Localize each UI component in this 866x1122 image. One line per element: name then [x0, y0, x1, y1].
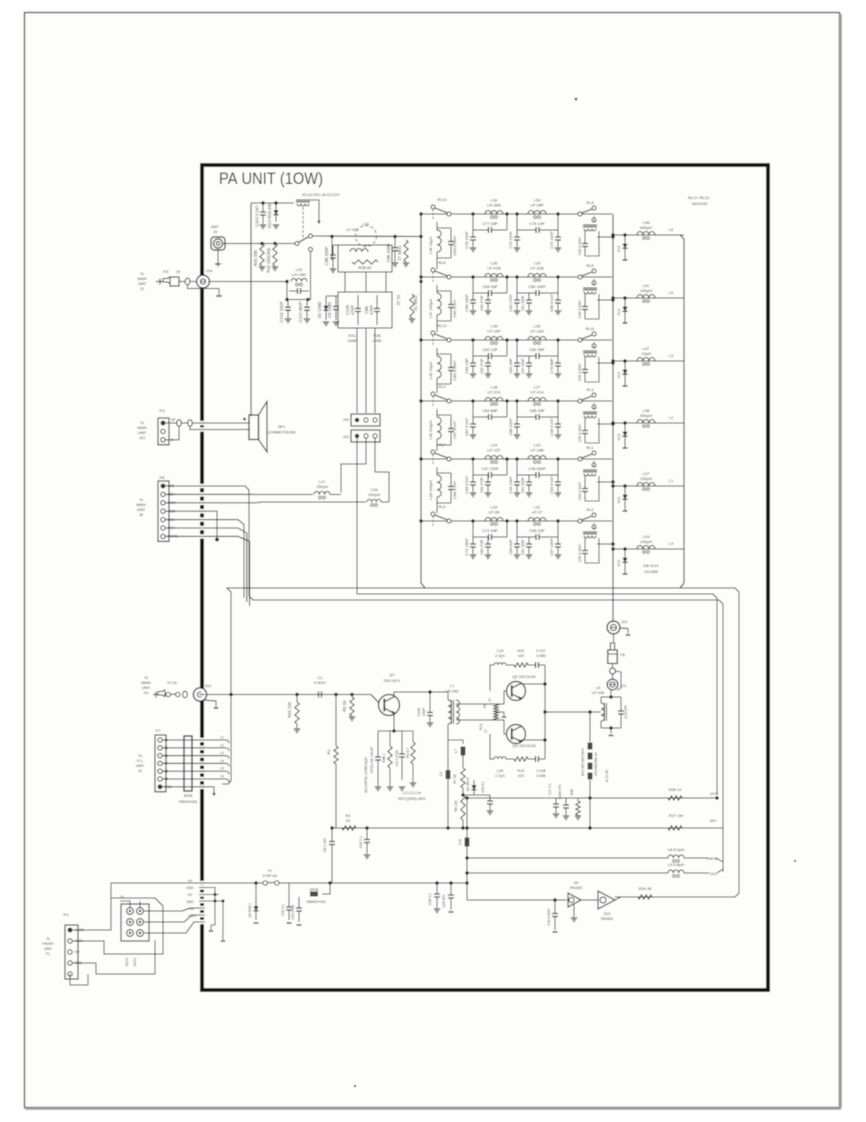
wire speaker return: [190, 426, 250, 429]
svg-text:J13: J13: [139, 436, 145, 440]
svg-text:R45 33K: R45 33K: [253, 250, 258, 267]
svg-text:RL11~RL12: RL11~RL12: [688, 195, 710, 200]
node row4 x558: [556, 399, 559, 402]
svg-text:P4: P4: [64, 912, 70, 917]
svg-text:J3: J3: [213, 229, 218, 234]
svg-text:220: 220: [518, 774, 524, 778]
svg-text:L5: L5: [220, 767, 224, 771]
wire J1 to frame HV2: [144, 922, 201, 933]
wire P6 aux: [165, 536, 249, 606]
svg-text:D8~D14: D8~D14: [644, 563, 660, 568]
wire P3 to speaker: [165, 422, 250, 424]
svg-text:J2: J2: [140, 287, 144, 291]
svg-text:R13: R13: [479, 724, 483, 730]
svg-text:47: 47: [488, 698, 492, 702]
wire supply to vcc line: [467, 797, 717, 799]
J1 outer loop: [104, 898, 163, 954]
svg-text:C67 100P: C67 100P: [549, 538, 554, 556]
svg-text:ACC2: ACC2: [133, 958, 137, 967]
wire F6 to J10: [613, 634, 615, 643]
svg-text:GND: GND: [186, 886, 194, 890]
svg-text:To: To: [140, 421, 144, 425]
wire Q2 collector: [521, 683, 545, 685]
wire x332 rail: [332, 827, 336, 829]
wires into frame stack: [201, 888, 215, 926]
svg-text:R12: R12: [517, 768, 524, 773]
svg-text:D13: D13: [617, 434, 621, 440]
svg-text:C75 10P: C75 10P: [529, 221, 545, 226]
wire filter row 3: [421, 339, 612, 341]
node L4 bottom: [609, 726, 612, 729]
svg-text:P2: P2: [164, 269, 170, 274]
wire P4 pin5: [70, 974, 88, 985]
resistor right of module2: [410, 294, 414, 318]
svg-text:C95 330P: C95 330P: [386, 243, 391, 262]
svg-text:R3 4.7: R3 4.7: [406, 748, 410, 758]
wire vcc corner: [710, 797, 717, 799]
node out diode 6: [623, 547, 626, 550]
svg-text:J14: J14: [206, 268, 213, 273]
node c101 top: [261, 201, 264, 204]
wire rail to 32V: [682, 827, 710, 829]
wire HV main: [201, 882, 263, 884]
svg-text:F6: F6: [620, 652, 625, 657]
svg-text:C48 0.047: C48 0.047: [464, 476, 469, 494]
svg-text:PA UNIT (1OW): PA UNIT (1OW): [219, 169, 323, 188]
speaker SP1: [249, 415, 259, 440]
node d13 top: [274, 201, 277, 204]
wire P7 L4: [162, 762, 226, 764]
node row1 x473: [471, 212, 474, 215]
svg-text:L1: L1: [220, 736, 224, 740]
svg-text:RL6: RL6: [439, 505, 446, 509]
node L22 left: [285, 280, 288, 283]
svg-text:PA1002: PA1002: [570, 886, 583, 890]
svg-text:L1: L1: [669, 478, 674, 483]
svg-text:A-13 1D: A-13 1D: [605, 769, 609, 782]
relay armature: [299, 237, 310, 243]
node supply pwtb: [465, 856, 468, 859]
svg-text:C17 0.1: C17 0.1: [548, 783, 552, 795]
node row2 x558: [556, 275, 559, 278]
svg-text:C44 140P: C44 140P: [508, 476, 513, 494]
svg-text:C60 100P: C60 100P: [528, 284, 546, 289]
wire lc bottom: [287, 291, 311, 300]
svg-text:UNIT: UNIT: [136, 764, 145, 768]
svg-text:D1 MV13: D1 MV13: [466, 777, 470, 791]
svg-text:F2 1A: F2 1A: [167, 681, 177, 685]
svg-text:EP55: EP55: [184, 794, 193, 798]
node row3 x473: [471, 338, 474, 341]
relay coil RL11: [593, 342, 595, 349]
svg-text:C62 270P: C62 270P: [480, 358, 484, 374]
svg-text:C93 0.0047: C93 0.0047: [452, 235, 457, 255]
svg-text:R9: R9: [483, 704, 487, 708]
wire J1 to frame HV: [144, 908, 201, 911]
wire fth to J13: [612, 674, 614, 679]
wire J11 pin3 elbow to L18: [375, 438, 389, 502]
svg-text:L5: L5: [669, 290, 674, 295]
svg-text:R44 220: R44 220: [287, 701, 292, 718]
svg-text:GND: GND: [186, 900, 194, 904]
svg-text:Q2 2SC3133: Q2 2SC3133: [512, 674, 536, 679]
svg-text:J3: J3: [138, 769, 142, 773]
relay RL8: [431, 268, 435, 272]
wire x332 down from module: [331, 237, 333, 261]
scan speck: [575, 98, 578, 101]
node antenna bus r6: [611, 542, 614, 545]
node osc-bus: [419, 235, 422, 238]
svg-text:LP-13T: LP-13T: [487, 448, 501, 453]
svg-text:C87 0.047: C87 0.047: [464, 418, 469, 436]
svg-text:13.8: 13.8: [710, 872, 717, 876]
wire 13.8 line: [467, 872, 668, 874]
ground hook J10: [620, 628, 628, 634]
svg-text:47: 47: [484, 729, 488, 733]
wire P7 L6: [162, 778, 226, 780]
svg-text:C30 0.1: C30 0.1: [359, 836, 363, 848]
svg-text:SP: SP: [171, 418, 176, 422]
svg-text:C63 270P: C63 270P: [508, 294, 513, 312]
connector J14: [197, 275, 210, 288]
svg-text:400µH: 400µH: [640, 413, 652, 418]
svg-text:C48 0.047: C48 0.047: [549, 418, 554, 436]
wire P7 L5: [162, 770, 226, 772]
svg-text:RL7: RL7: [439, 443, 446, 447]
node out diode 3: [623, 359, 626, 362]
svg-text:LR-162: LR-162: [445, 689, 459, 694]
svg-text:L8 8.2µH: L8 8.2µH: [668, 847, 684, 852]
svg-text:220: 220: [518, 654, 524, 658]
relay coil RL5: [593, 279, 595, 286]
svg-text:L4: L4: [220, 759, 224, 763]
wire module to module2: [344, 272, 346, 292]
node row2 x507: [505, 275, 508, 278]
svg-text:C45 330P: C45 330P: [528, 466, 546, 471]
svg-text:J9: J9: [176, 269, 181, 274]
svg-text:L1: L1: [450, 683, 455, 688]
collector bus: [544, 665, 546, 759]
svg-text:RL13 DS1-M-DC12V: RL13 DS1-M-DC12V: [302, 192, 340, 197]
svg-text:L40 100µH: L40 100µH: [428, 420, 433, 440]
ground hook under J14: [188, 285, 220, 295]
feedback bottom loop: [490, 734, 494, 759]
feedthrough above J13: [610, 668, 616, 674]
svg-text:L4: L4: [669, 541, 674, 546]
svg-text:PA2002: PA2002: [601, 917, 614, 921]
bottom rail: [332, 827, 717, 829]
svg-text:LP-210: LP-210: [487, 390, 501, 395]
node coll bus: [543, 738, 546, 741]
svg-text:D13 RD5.6M: D13 RD5.6M: [267, 203, 272, 228]
svg-text:LP-27: LP-27: [532, 510, 544, 515]
svg-text:Q1: Q1: [389, 672, 395, 677]
node row1 x507: [505, 212, 508, 215]
svg-text:EP35: EP35: [310, 888, 319, 892]
connector J3 (ANT): [211, 237, 225, 250]
relay RL2: [578, 519, 582, 523]
wire output L1: [613, 485, 684, 487]
node R1: [334, 693, 337, 696]
bus A joins J12 line: [230, 592, 232, 695]
node busA-J12: [229, 693, 232, 696]
node row1 bus: [419, 212, 422, 215]
svg-text:C83 18P: C83 18P: [464, 358, 469, 374]
feedthrough oval b: [188, 420, 193, 427]
connector J12: [193, 688, 206, 701]
wire filter row 6: [421, 520, 612, 522]
ferrite beads EP1-EP4: [589, 712, 591, 742]
node row4 x517: [515, 399, 518, 402]
wire coll bus to L4: [545, 711, 601, 713]
wire relay4 to antenna bus: [597, 423, 613, 425]
wire D9 to D10: [581, 899, 598, 901]
wire P4 pin2: [72, 941, 104, 949]
J1 pin 6: [137, 930, 144, 937]
connector J10: [607, 621, 620, 634]
ground hook J12: [203, 700, 216, 707]
bus B right vertical: [722, 604, 724, 872]
svg-text:C81 56P: C81 56P: [508, 358, 513, 374]
svg-text:RL2: RL2: [587, 508, 594, 512]
node bead top: [588, 710, 591, 713]
svg-text:C107: C107: [536, 648, 545, 653]
svg-text:C47 120P: C47 120P: [481, 466, 499, 471]
relay contact sw2: [309, 234, 313, 238]
svg-text:R26 14: R26 14: [669, 787, 683, 792]
relay RL9: [578, 212, 582, 216]
svg-text:P6: P6: [160, 475, 166, 480]
relay RL7: [431, 450, 435, 454]
svg-text:2.7µH: 2.7µH: [495, 774, 505, 778]
node R5: [350, 693, 353, 696]
svg-text:3T 22: 3T 22: [396, 294, 401, 305]
node out diode 4: [623, 421, 626, 424]
svg-text:J10: J10: [621, 619, 628, 624]
svg-text:SP1: SP1: [278, 425, 285, 429]
svg-text:C42 0.0047: C42 0.0047: [547, 908, 551, 925]
wire J11 pin2 elbow to L17: [341, 438, 366, 493]
svg-text:150µH: 150µH: [316, 484, 328, 489]
svg-text:100P: 100P: [422, 707, 426, 716]
svg-text:C84 88P: C84 88P: [482, 408, 498, 413]
svg-text:UNIT: UNIT: [142, 686, 151, 690]
svg-text:C76 220P: C76 220P: [508, 231, 513, 249]
svg-text:R5 50: R5 50: [342, 700, 347, 712]
node row4 bus: [419, 399, 422, 402]
svg-text:L39 100µH: L39 100µH: [428, 480, 433, 500]
svg-text:C97 0.047: C97 0.047: [452, 421, 457, 439]
svg-text:C48 0.1: C48 0.1: [428, 893, 432, 905]
svg-text:ACC1: ACC1: [125, 958, 129, 967]
vertical wire x251: [250, 203, 252, 416]
scan speck 2: [354, 1085, 356, 1087]
node row5 x517: [515, 457, 518, 460]
svg-text:C85 33P: C85 33P: [529, 408, 545, 413]
node row2 x473: [471, 275, 474, 278]
node out L6: [611, 233, 614, 236]
wire L1 sec bottom: [456, 720, 506, 734]
wire J3 to switch: [223, 243, 295, 245]
svg-text:R1: R1: [326, 749, 331, 755]
wire circle to module: [365, 245, 367, 247]
node row5 x473: [471, 457, 474, 460]
svg-text:P3: P3: [160, 408, 166, 413]
svg-text:32V: 32V: [709, 818, 716, 823]
relay RL13 dashed actuator: [302, 207, 304, 240]
relay coil RL2: [593, 523, 595, 530]
wire caps top: [288, 895, 290, 898]
svg-text:R34 39: R34 39: [639, 886, 652, 891]
relay RL5: [578, 275, 582, 279]
svg-text:LP-100: LP-100: [592, 690, 606, 695]
svg-text:C77 33P: C77 33P: [482, 221, 498, 226]
wire output L6: [613, 234, 684, 236]
node r45: [260, 242, 263, 245]
svg-text:L2,L3,L14: L2,L3,L14: [403, 790, 422, 795]
svg-text:L47 100µH: L47 100µH: [428, 299, 433, 319]
wire filter row 1: [421, 213, 612, 215]
svg-text:MAIN: MAIN: [138, 426, 147, 430]
svg-text:To: To: [140, 272, 144, 276]
svg-text:LP-15A: LP-15A: [530, 329, 544, 334]
svg-text:C102 560P: C102 560P: [298, 301, 303, 322]
svg-text:C90 0.047: C90 0.047: [452, 299, 457, 317]
wire L1 sec top: [456, 691, 506, 704]
wire P6 aux: [165, 520, 244, 598]
svg-text:R11: R11: [518, 648, 525, 653]
svg-text:LP-28: LP-28: [489, 510, 501, 515]
svg-text:To: To: [138, 754, 142, 758]
wire FWR to L18: [165, 501, 366, 504]
relay RL3: [578, 399, 582, 403]
svg-text:C64 33P: C64 33P: [482, 284, 498, 289]
node out diode 1: [623, 233, 626, 236]
svg-text:C58 0.047: C58 0.047: [549, 294, 554, 312]
feedthrough oval: [185, 278, 190, 285]
wire relay right down: [310, 200, 319, 224]
svg-text:C104 100P: C104 100P: [279, 301, 284, 322]
svg-text:GND: GND: [188, 914, 196, 918]
wire P6 aux: [165, 528, 246, 602]
wires module2 to P8: [356, 328, 358, 413]
svg-text:R27 1W: R27 1W: [669, 813, 684, 818]
node c95: [393, 235, 396, 238]
svg-text:RL8: RL8: [439, 261, 446, 265]
svg-text:27 MEG: 27 MEG: [397, 245, 402, 260]
node supply 13.8: [465, 871, 468, 874]
relay coil RL9: [593, 216, 595, 223]
svg-text:C79 88P: C79 88P: [549, 358, 554, 374]
svg-text:C54 0.047: C54 0.047: [549, 476, 554, 494]
svg-text:L3: L3: [439, 772, 443, 776]
svg-text:C92 0.0047: C92 0.0047: [578, 544, 582, 562]
svg-text:C29 470: C29 470: [442, 894, 446, 907]
svg-text:0.0047: 0.0047: [314, 680, 327, 685]
svg-text:C71 180P: C71 180P: [464, 538, 469, 556]
svg-text:R42 330(J0)L: R42 330(J0)L: [266, 247, 271, 273]
svg-text:J11: J11: [143, 691, 149, 695]
svg-text:D13: D13: [617, 372, 621, 378]
node row5 x507: [505, 457, 508, 460]
svg-text:EP1 EP2 EP3 EP4: EP1 EP2 EP3 EP4: [581, 748, 585, 776]
svg-text:L21: L21: [363, 221, 371, 226]
svg-text:RL12: RL12: [437, 324, 446, 328]
svg-text:C61 220P: C61 220P: [521, 539, 525, 555]
node antenna bus r5: [611, 480, 614, 483]
wire c98 top: [333, 244, 338, 246]
svg-text:C98 330P: C98 330P: [324, 246, 329, 265]
node row3 x507: [505, 338, 508, 341]
relay coil RL1: [593, 461, 595, 468]
svg-text:2.7µH: 2.7µH: [495, 654, 505, 658]
svg-text:D13: D13: [617, 309, 621, 315]
node Q1 emitter: [392, 729, 395, 732]
ground stub a: [210, 925, 212, 930]
node row2 x517: [515, 275, 518, 278]
frame notches: [199, 421, 205, 425]
wire E hook: [165, 426, 179, 440]
ground D9: [573, 904, 575, 917]
svg-text:L6: L6: [220, 775, 224, 779]
node row5 bus: [419, 457, 422, 460]
ground dot P6: [215, 538, 219, 542]
svg-text:C100: C100: [417, 708, 421, 717]
wire filter row 4: [421, 400, 612, 402]
wire D9 input: [467, 899, 567, 901]
svg-text:C108: C108: [536, 768, 546, 773]
wire P7 L3: [162, 755, 226, 757]
svg-text:C5 0.047: C5 0.047: [323, 838, 327, 852]
page border shadow bottom: [25, 1107, 841, 1110]
svg-text:UNIT: UNIT: [44, 947, 52, 951]
relay RL4: [431, 392, 435, 396]
svg-text:C80 36P: C80 36P: [529, 347, 545, 352]
svg-text:400µH: 400µH: [640, 225, 652, 230]
wire relay6 to antenna bus: [597, 543, 613, 545]
wire sw3 down to L22 out: [310, 252, 312, 282]
svg-text:VCC: VCC: [710, 791, 718, 796]
node L22 bottom right: [306, 298, 309, 301]
node row1 x558: [556, 212, 559, 215]
node coll bus: [543, 682, 546, 685]
scan speck 3: [794, 860, 796, 862]
svg-text:FB0H0Y01N: FB0H0Y01N: [179, 800, 198, 804]
svg-text:J12: J12: [205, 683, 212, 688]
svg-text:2SC1971: 2SC1971: [384, 678, 401, 683]
antenna bus x613: [612, 214, 614, 621]
svg-text:RL1: RL1: [587, 446, 594, 450]
relay contact sw1: [295, 242, 299, 246]
svg-text:To: To: [139, 498, 143, 502]
wire LSB to bus B: [165, 486, 253, 600]
wire filter row 2: [421, 276, 612, 278]
wire P7 GND: [162, 787, 214, 796]
svg-text:RL9: RL9: [587, 201, 594, 205]
wire PWTB line: [467, 857, 668, 859]
node out diode 5: [623, 484, 626, 487]
relay RL6: [431, 512, 435, 516]
svg-text:100µH: 100µH: [368, 492, 380, 497]
wire L1 bottom down: [447, 724, 449, 770]
bus A left vertical: [222, 592, 231, 784]
node row3 bus: [419, 338, 422, 341]
svg-text:To: To: [46, 937, 50, 941]
fuse F6: [612, 664, 614, 669]
svg-text:100K: 100K: [372, 338, 382, 343]
svg-text:LP-15F: LP-15F: [487, 329, 501, 334]
schematic frame border: [202, 165, 768, 990]
